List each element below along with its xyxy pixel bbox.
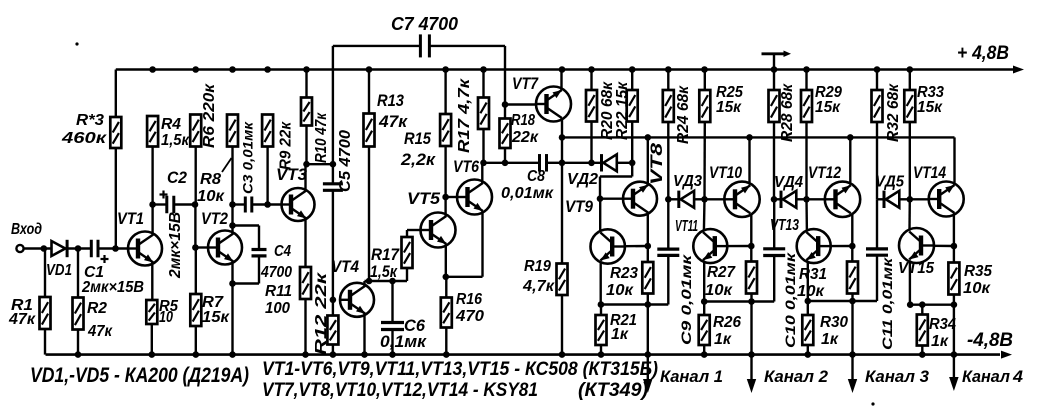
label R26 1к — [713, 314, 741, 348]
wire channel1 output node — [601, 303, 668, 305]
svg-text:R16: R16 — [456, 291, 482, 308]
svg-text:VT7,VT8,VT10,VT12,VT14 - KSY81: VT7,VT8,VT10,VT12,VT14 - KSY81 — [262, 380, 538, 401]
capacitor C9 — [657, 199, 679, 304]
svg-text:10к: 10к — [797, 283, 825, 300]
label Канал 1 — [660, 367, 723, 386]
svg-text:VT4: VT4 — [331, 258, 359, 276]
svg-text:VT12: VT12 — [808, 164, 841, 182]
svg-text:4: 4 — [1012, 367, 1024, 386]
svg-text:R6 220к: R6 220к — [201, 83, 218, 148]
label R35 10к — [963, 263, 993, 297]
wire channel4 output drop — [949, 305, 959, 391]
svg-text:R23: R23 — [610, 265, 638, 282]
transistor VT10 — [724, 182, 759, 217]
wire -4.8V bottom supply rail — [46, 351, 1013, 359]
label R28 68к rotated — [779, 83, 796, 142]
resistor R6 — [190, 115, 201, 147]
wire C4 branch from VT2 collector — [233, 226, 260, 250]
junction top rail x=632.2 — [629, 66, 636, 73]
resistor R29 — [801, 70, 812, 200]
transistor VT7 — [536, 87, 571, 122]
label Канал 2 — [764, 367, 829, 386]
resistor R24 — [663, 70, 674, 203]
svg-text:R34: R34 — [929, 316, 956, 333]
wire channel4 output node — [910, 301, 954, 308]
label VT7 — [512, 75, 539, 93]
label R25 15к — [716, 84, 744, 116]
svg-text:C5 4700: C5 4700 — [337, 130, 354, 192]
wire VT3 emitter to R11 — [304, 219, 306, 267]
label C6 0,1мк — [380, 317, 428, 351]
label R19 4,7к — [522, 258, 555, 295]
svg-text:VД5: VД5 — [875, 174, 904, 191]
junction top rail x=483.5 — [480, 66, 487, 73]
diode VD4 — [774, 191, 796, 208]
transistor VT9 — [591, 229, 625, 263]
wire VT9 collector to VT8 base — [599, 199, 601, 232]
resistor R4 — [147, 116, 158, 147]
label R9 22к rotated — [278, 121, 295, 170]
label R16 470 — [455, 291, 484, 325]
resistor R1 — [40, 249, 51, 355]
capacitor C1 — [91, 240, 108, 263]
svg-text:R17: R17 — [371, 246, 400, 264]
wire VT8 emitter — [645, 214, 652, 250]
label R5 10 — [159, 298, 178, 326]
wire C3 left — [233, 203, 246, 205]
svg-text:VД4: VД4 — [774, 174, 803, 191]
wire VT13 emitter — [805, 261, 812, 305]
wire VT4 collector — [365, 281, 408, 286]
label VT5 — [407, 190, 441, 208]
wire C2 left — [153, 203, 167, 205]
wire VT6 collector to C8 — [484, 160, 540, 167]
wire VT15 collector to VT14 base — [908, 199, 911, 230]
diode VD2 — [602, 154, 617, 171]
wire VT15 base — [935, 245, 954, 248]
svg-text:1к: 1к — [611, 326, 629, 343]
label VD2 — [567, 171, 598, 188]
label transistor types line 1 — [262, 359, 658, 380]
transistor VT15 — [899, 228, 934, 263]
label transistor types line 2 — [262, 380, 648, 401]
transistor VT3 — [281, 188, 315, 221]
wire C7 right to VT7 base — [429, 46, 508, 108]
resistor R32 — [872, 70, 883, 200]
wire VT11 emitter — [701, 261, 708, 305]
label C2 — [167, 169, 187, 187]
svg-text:VT8: VT8 — [648, 142, 666, 185]
svg-text:Канал 2: Канал 2 — [764, 367, 829, 386]
svg-text:15к: 15к — [815, 99, 841, 116]
label R22 15к rotated — [614, 81, 631, 140]
wire channel2 output drop — [747, 302, 756, 394]
wire C2 right to VT2 base column — [174, 201, 198, 208]
svg-text:VD1: VD1 — [46, 262, 72, 279]
svg-text:+ 4,8В: + 4,8В — [957, 43, 1009, 64]
label VT4 — [331, 258, 359, 276]
capacitor C11 — [866, 199, 888, 301]
resistor R31 — [847, 246, 858, 304]
resistor R17b 4,7к — [478, 70, 489, 130]
svg-text:R19: R19 — [524, 258, 551, 275]
wire VD5 anode to VT14 base node — [899, 196, 913, 203]
svg-text:C4: C4 — [274, 243, 291, 260]
label VT2 — [201, 210, 228, 228]
label VT15 — [898, 260, 935, 277]
wire VT14 emitter — [951, 214, 958, 250]
label R21 1к — [610, 312, 637, 343]
svg-text:R32 68к: R32 68к — [885, 83, 902, 142]
wire VT7 collector to +rail — [560, 70, 562, 91]
wire VT9 base from R23 node — [626, 245, 648, 248]
svg-text:R13: R13 — [377, 92, 404, 110]
transistor VT6 — [457, 180, 492, 215]
svg-text:460к: 460к — [61, 130, 107, 147]
resistor R21 — [596, 305, 607, 358]
label C1 — [84, 264, 104, 281]
svg-text:15к: 15к — [202, 309, 230, 326]
wire VT5 collector to R15 / VT6 base — [442, 146, 457, 217]
svg-text:470: 470 — [455, 308, 484, 325]
resistor R30 — [802, 301, 813, 358]
resistor R5 — [146, 300, 157, 358]
wire VT10 emitter — [748, 214, 755, 250]
svg-text:15к: 15к — [716, 99, 742, 116]
wire +4.8V top supply rail — [116, 66, 1024, 74]
junction top rail x=306.5 — [303, 66, 310, 73]
svg-text:R30: R30 — [820, 314, 848, 331]
label VD4 — [774, 174, 803, 191]
resistor R17a 1,5к — [402, 230, 422, 281]
wire VT10 base — [705, 198, 726, 200]
resistor R10 — [301, 70, 312, 165]
label R15 2,2к — [400, 130, 437, 169]
svg-text:R31: R31 — [799, 266, 827, 283]
svg-text:VD1,-VD5 - КА200 (Д219А): VD1,-VD5 - КА200 (Д219А) — [30, 364, 249, 387]
svg-text:VД2: VД2 — [567, 171, 598, 188]
transistor VT8 — [623, 182, 657, 216]
label C4 4700 — [260, 243, 292, 281]
label VT6 — [453, 158, 480, 176]
svg-text:0,1мк: 0,1мк — [380, 333, 428, 351]
label Вход — [11, 221, 42, 238]
svg-text:VT1-VT6,VT9,VT11,VT13,VT15 - К: VT1-VT6,VT9,VT11,VT13,VT15 - КС508 (КТ31… — [262, 359, 658, 380]
wire VD2 anode — [562, 162, 601, 164]
label R32 68к rotated — [885, 83, 902, 142]
svg-text:R*3: R*3 — [76, 112, 104, 129]
resistor R18 — [500, 105, 511, 163]
resistor R12 — [327, 300, 338, 358]
label R7 15к — [202, 294, 230, 326]
junction top rail x=267.6 — [264, 66, 271, 73]
wire VD2 anode node — [617, 160, 636, 167]
label VT8 rotated — [648, 142, 666, 185]
wire R13 to VT4 collector node — [366, 147, 373, 285]
wire VT4 emitter — [361, 314, 368, 358]
resistor R23 — [642, 246, 653, 308]
junction top rail x=909.8 — [907, 66, 914, 73]
junction top rail x=445.6 — [442, 66, 449, 73]
junction top rail x=152.6 — [149, 66, 156, 73]
svg-text:VT6: VT6 — [453, 158, 480, 176]
label VD1 — [46, 262, 72, 279]
svg-text:С11 0,01мк: С11 0,01мк — [879, 257, 895, 350]
wire VT7 base — [505, 103, 537, 105]
transistor VT1 — [128, 232, 162, 266]
label VT14 — [913, 164, 946, 182]
wire VT12 emitter — [849, 214, 856, 250]
label R8 10к — [197, 158, 232, 205]
wire channel2 output node — [704, 300, 774, 302]
capacitor C6 — [381, 278, 404, 358]
wire VT2 base — [195, 246, 208, 248]
svg-text:2мк×15В: 2мк×15В — [81, 279, 144, 296]
resistor R13 — [364, 70, 375, 147]
label R23 10к — [606, 265, 638, 299]
wire C4 bottom to VT2 emitter — [233, 256, 260, 284]
junction top rail x=591.5 — [588, 66, 595, 73]
wire C7 link from C5 node — [333, 46, 420, 164]
resistor R27 — [746, 246, 757, 305]
wire VT2 emitter — [229, 261, 236, 358]
svg-text:10к: 10к — [197, 188, 225, 205]
resistor R11 — [300, 267, 311, 358]
label R2 47к — [87, 300, 113, 340]
resistor R2 — [73, 249, 84, 358]
label VT11 — [675, 218, 698, 235]
svg-text:2мк×15В: 2мк×15В — [167, 212, 184, 279]
svg-text:R15: R15 — [404, 130, 432, 148]
svg-text:Канал: Канал — [962, 367, 1010, 386]
svg-text:R8: R8 — [200, 171, 221, 188]
wire VT9 emitter — [598, 262, 605, 308]
svg-text:1к: 1к — [714, 331, 732, 348]
svg-text:С8: С8 — [527, 168, 545, 185]
svg-text:(КТ349): (КТ349) — [578, 380, 648, 401]
svg-text:22к: 22к — [511, 129, 539, 146]
label VT9 — [565, 198, 594, 216]
svg-text:С7 4700: С7 4700 — [391, 14, 458, 34]
label Канал 4 — [962, 367, 1024, 386]
resistor R9 — [262, 115, 273, 205]
label R18 22к — [511, 112, 539, 146]
capacitor C8 — [540, 154, 547, 172]
svg-text:R4: R4 — [161, 116, 181, 133]
label C5 4700 rotated — [337, 130, 354, 192]
svg-text:VT10: VT10 — [709, 164, 743, 182]
wire C3 right to VT3 base — [252, 201, 282, 208]
resistor R8 — [227, 115, 238, 147]
capacitor C2 — [160, 191, 174, 214]
label VT10 — [709, 164, 743, 182]
wire VT10 collector to bus — [746, 134, 753, 185]
wire C8 to VT7 emitter node — [547, 162, 563, 164]
label R12 22к rotated — [313, 271, 330, 355]
label VT3 — [276, 166, 307, 184]
svg-text:10к: 10к — [705, 282, 733, 299]
svg-text:С9 0,01мк: С9 0,01мк — [678, 254, 694, 345]
svg-text:VT15: VT15 — [898, 260, 935, 277]
wire R6 to VT2 base node — [192, 147, 199, 251]
svg-text:VT14: VT14 — [913, 164, 946, 182]
svg-text:1к: 1к — [931, 333, 949, 350]
svg-text:Канал 3: Канал 3 — [865, 367, 930, 386]
diode VD3 — [668, 191, 694, 208]
label VT13 — [770, 217, 799, 234]
svg-text:R11: R11 — [265, 283, 292, 300]
svg-text:R10 47к: R10 47к — [313, 112, 330, 163]
resistor R28 — [769, 70, 780, 203]
wire VT1 emitter to R5 — [151, 262, 153, 300]
label C2 value 2мк×15В rotated — [167, 212, 184, 279]
wire C1 to VT1 base — [98, 245, 128, 252]
label R11 100 — [265, 283, 292, 317]
svg-text:VT13: VT13 — [770, 217, 799, 234]
svg-text:R9 22к: R9 22к — [278, 121, 295, 170]
junction top rail x=704.5 — [701, 66, 708, 73]
resistor R16 — [441, 277, 452, 358]
resistor R34 — [917, 305, 928, 358]
transistor VT11 — [693, 229, 727, 263]
svg-text:10: 10 — [159, 309, 173, 326]
resistor R22 — [627, 70, 638, 163]
wire VT15 emitter — [907, 260, 914, 308]
junction top rail x=232.5 — [229, 66, 236, 73]
node speck top left — [75, 42, 78, 45]
junction top rail x=668.3 — [665, 66, 672, 73]
svg-text:Вход: Вход — [11, 221, 42, 238]
label R20 68к rotated — [599, 81, 616, 140]
wire VT14 collector to bus end — [953, 137, 955, 184]
wire VT1 collector to R4 / C2 node — [149, 147, 156, 236]
svg-text:VT2: VT2 — [201, 210, 228, 228]
svg-text:VT9: VT9 — [565, 198, 594, 216]
junction top rail x=369 — [366, 66, 373, 73]
label VT12 — [808, 164, 841, 182]
svg-text:VД3: VД3 — [673, 173, 702, 190]
wire VT6 collector node — [480, 129, 487, 184]
label R17 4,7к rotated — [456, 78, 473, 153]
label R10 47к rotated — [313, 112, 330, 163]
wire channel3 output drop — [848, 301, 857, 393]
wire collector bus to channels — [562, 136, 955, 138]
svg-text:С10 0,01мк: С10 0,01мк — [782, 252, 798, 348]
label R34 1к — [929, 316, 956, 350]
svg-text:VT1: VT1 — [117, 210, 144, 228]
wire VT13 base — [831, 245, 852, 248]
label R1 47к — [8, 297, 36, 328]
svg-text:VT5: VT5 — [407, 190, 441, 208]
label C10 0,01мк rotated — [782, 252, 798, 348]
label R31 10к — [797, 266, 827, 300]
transistor VT12 — [825, 182, 860, 217]
svg-text:0,01мк: 0,01мк — [501, 185, 554, 202]
wire channel3 output node — [808, 300, 877, 302]
label R29 15к — [815, 84, 842, 116]
junction top rail x=195.7 — [192, 66, 199, 73]
label diode types VD1-VD5 — [30, 364, 249, 387]
junction top rail x=806.5 — [803, 66, 810, 73]
wire C5 bottom to VT4 base node — [330, 190, 337, 303]
label R13 47к — [377, 92, 409, 131]
svg-text:VT7: VT7 — [512, 75, 539, 93]
resistor R20 — [586, 70, 597, 167]
svg-text:R2: R2 — [87, 300, 107, 317]
svg-text:C2: C2 — [167, 169, 187, 187]
junction top rail x=877 — [874, 66, 881, 73]
capacitor C10 — [763, 199, 785, 301]
svg-text:2,2к: 2,2к — [400, 151, 437, 169]
label R*3 460к — [61, 112, 107, 147]
svg-text:R26: R26 — [713, 314, 741, 331]
svg-text:-4,8В: -4,8В — [967, 330, 1013, 351]
wire VT8 collector to bus — [645, 134, 652, 184]
label R6 220к rotated — [201, 83, 218, 148]
diode VD5 — [877, 191, 899, 208]
label VD5 — [875, 174, 904, 191]
label C11 0,01мк rotated — [879, 257, 895, 350]
label C1 value 2мк×15В — [81, 279, 144, 296]
resistor R15 — [440, 70, 451, 147]
capacitor C7 — [420, 34, 429, 57]
svg-text:1к: 1к — [821, 331, 839, 348]
wire VT13 collector to VT12 base — [805, 199, 808, 231]
svg-text:C3 0,01мк: C3 0,01мк — [240, 121, 256, 194]
wire VT3 collector node to C5 — [307, 161, 337, 168]
transistor VT13 — [797, 229, 831, 263]
label C3 0,01мк rotated — [240, 121, 256, 194]
svg-text:R28 68к: R28 68к — [779, 83, 796, 142]
wire channel1 output drop — [643, 305, 653, 394]
wire VT11 collector to VT10 base — [703, 199, 706, 231]
label R27 10к — [705, 264, 736, 299]
svg-text:R22 15к: R22 15к — [614, 81, 631, 140]
ground common terminal symbol on +rail — [762, 51, 792, 73]
svg-text:R18: R18 — [511, 112, 535, 129]
wire VD3 anode to VT10 base node — [694, 196, 708, 203]
svg-text:R12 22к: R12 22к — [313, 271, 330, 355]
wire VD1 to C1 — [67, 245, 92, 252]
transistor VT4 — [340, 283, 374, 317]
svg-text:VT3: VT3 — [276, 166, 307, 184]
wire jog VD2 cathode to VT8 base — [597, 163, 633, 202]
label -4,8В supply — [967, 330, 1013, 351]
wire VT5 emitter — [443, 244, 450, 280]
resistor R35 — [948, 246, 959, 308]
transistor VT5 — [421, 213, 456, 248]
label R24 68к rotated — [675, 85, 692, 144]
svg-text:10к: 10к — [963, 280, 991, 297]
svg-text:4700: 4700 — [260, 264, 292, 281]
svg-text:R27: R27 — [707, 264, 736, 281]
wire VT8 base — [600, 197, 624, 199]
wire VT3 collector — [303, 161, 310, 191]
capacitor C3 — [245, 197, 252, 213]
svg-text:VT11: VT11 — [675, 218, 698, 235]
svg-text:1,5к: 1,5к — [161, 132, 190, 149]
label C7 4700 — [391, 14, 458, 34]
svg-text:4,7к: 4,7к — [522, 278, 555, 295]
label +4,8В supply — [957, 43, 1009, 64]
transistor VT2 — [208, 231, 242, 265]
wire VT2 collector to R8 / C3 / C4 node — [229, 147, 236, 235]
svg-text:R35: R35 — [964, 263, 993, 280]
wire VT7 emitter to bus — [559, 119, 566, 167]
junction top rail x=562 — [559, 66, 566, 73]
node input terminal Вход — [16, 245, 23, 252]
svg-text:10к: 10к — [606, 282, 634, 299]
